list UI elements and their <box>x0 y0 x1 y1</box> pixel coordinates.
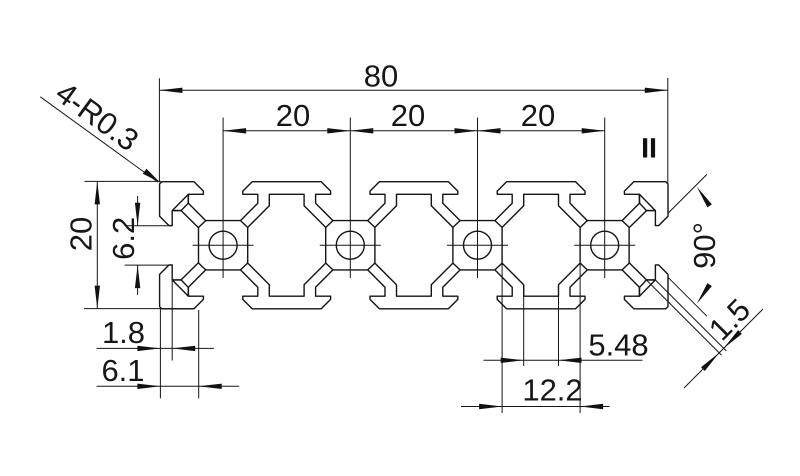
svg-text:20: 20 <box>521 98 555 133</box>
octagonal cavity 1 <box>248 194 326 296</box>
dimension arrows <box>95 88 742 410</box>
svg-text:20: 20 <box>63 217 98 251</box>
octagonal cavity 2 <box>375 194 453 296</box>
bore hole 1 <box>209 231 237 259</box>
svg-text:12.2: 12.2 <box>522 373 582 408</box>
hole horizontal centerline ticks <box>193 244 636 246</box>
dimension lines <box>40 78 763 413</box>
svg-text:20: 20 <box>276 98 310 133</box>
corner channel top-left <box>172 194 188 210</box>
core corner jog lines <box>199 221 630 270</box>
parallelism symbol II <box>643 138 647 157</box>
svg-text:80: 80 <box>364 59 398 94</box>
bore hole 3 <box>464 231 492 259</box>
svg-text:5.48: 5.48 <box>588 328 648 363</box>
profile outer outline with V-slots <box>160 182 668 309</box>
svg-text:1.8: 1.8 <box>102 315 145 350</box>
bore hole 2 <box>336 231 364 259</box>
bore hole 4 <box>591 231 619 259</box>
octagonal cavity 3 <box>502 194 580 296</box>
hole vertical centerlines <box>223 118 605 279</box>
svg-text:20: 20 <box>391 98 425 133</box>
svg-text:90°: 90° <box>687 222 722 269</box>
corner channel top-right <box>639 194 655 210</box>
corner channel bottom-left <box>172 280 188 296</box>
svg-text:6.1: 6.1 <box>101 353 144 388</box>
svg-text:6.2: 6.2 <box>106 217 141 260</box>
corner channel bottom-right <box>639 280 655 296</box>
